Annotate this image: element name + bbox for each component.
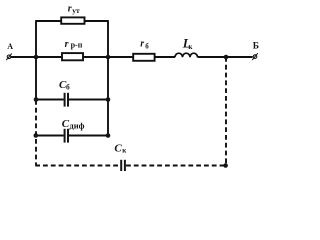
svg-text:r: r [140, 38, 144, 49]
svg-text:r: r [65, 39, 69, 50]
svg-text:р-п: р-п [71, 41, 83, 50]
svg-text:Б: Б [253, 42, 259, 52]
svg-text:C: C [114, 143, 122, 155]
svg-text:ут: ут [72, 6, 80, 15]
svg-text:r: r [68, 4, 72, 15]
svg-text:А: А [7, 42, 13, 51]
svg-text:диф: диф [69, 121, 84, 131]
svg-text:б: б [145, 42, 149, 50]
svg-text:б: б [66, 82, 70, 91]
